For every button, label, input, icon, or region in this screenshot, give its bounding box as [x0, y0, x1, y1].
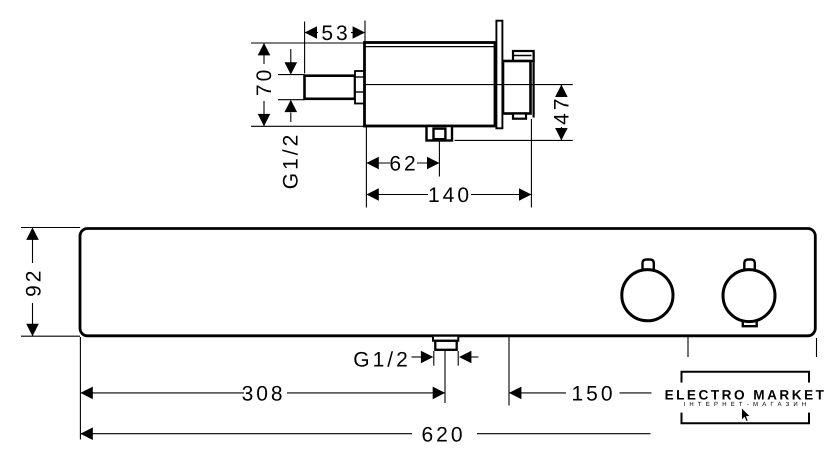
knob left circle: [622, 270, 673, 321]
G1/2 leader arrow left: [470, 356, 478, 358]
spout flange: [355, 71, 365, 104]
nut centerline: [438, 141, 440, 177]
dimension 70 extension line top: [251, 42, 366, 44]
knob main block (top view): [503, 61, 531, 114]
dimension 620 line: [80, 433, 412, 435]
logo white background: [652, 357, 833, 441]
dimension 47 line: [560, 85, 562, 96]
centerline: [365, 84, 573, 86]
knob right circle: [723, 270, 775, 322]
dimension 140 arrow right: [519, 188, 531, 201]
knob bottom tab (top view): [513, 114, 526, 119]
dimension 150 extension right: [687, 337, 689, 358]
G1/2 leader arrow up: [290, 113, 292, 123]
dimension 140 arrow left: [366, 188, 378, 201]
body: [365, 43, 496, 127]
svg-text:620: 620: [421, 423, 465, 446]
nut inner (top view): [434, 129, 446, 140]
dimension 92 line: [32, 228, 34, 264]
dimension 53 arrow right: [353, 26, 365, 39]
G1/2 fitting extension left: [433, 351, 435, 366]
knob lip (top view): [513, 51, 534, 61]
svg-text:150: 150: [571, 382, 615, 405]
dimension 70 extension line bottom: [251, 125, 364, 127]
dimension 620 extension right: [816, 338, 818, 359]
dimension 70 line: [263, 43, 265, 64]
G1/2 label top view: [280, 132, 303, 190]
dimension 70 arrow up: [258, 43, 271, 55]
dimension 92 arrow down: [26, 324, 39, 336]
G1/2 leader arrow down: [290, 49, 292, 63]
knob right outer edge: [532, 52, 534, 118]
svg-text:92: 92: [23, 268, 46, 297]
fitting centerline: [444, 351, 446, 403]
logo frame top bracket: [682, 372, 810, 383]
knob right bottom tab: [743, 319, 757, 326]
dimension 140 line: [366, 194, 428, 196]
knob right top tab: [744, 260, 755, 274]
knob left top tab: [643, 260, 654, 274]
dimension 620 arrow left: [80, 427, 92, 440]
G1/2 leader extension top: [278, 74, 305, 76]
dimension 47 arrow down: [555, 128, 568, 140]
svg-text:70: 70: [253, 67, 276, 96]
dimension 140 extension right: [530, 119, 532, 208]
dimension 70 text: [253, 67, 276, 96]
svg-text:ІНТЕРНЕТ-МАГАЗИН: ІНТЕРНЕТ-МАГАЗИН: [684, 401, 811, 408]
svg-text:140: 140: [428, 184, 472, 207]
dimension 308 arrow left: [80, 387, 92, 400]
G1/2 leader arrow right: [412, 356, 423, 358]
nut outer (top view): [427, 126, 453, 141]
dimension 47 extension bottom: [455, 139, 573, 141]
svg-text:47: 47: [550, 96, 573, 125]
tablet body: [80, 229, 815, 336]
dimension 62 extension left: [365, 127, 367, 208]
dimension 150 extension left: [508, 336, 510, 406]
dimension 62 line: [366, 162, 390, 164]
svg-text:ELECTRO MARKET: ELECTRO MARKET: [665, 387, 827, 402]
dimension 92 text: [23, 268, 46, 297]
dimension 150 arrow left: [509, 387, 521, 400]
dimension 70 arrow down: [258, 114, 271, 126]
dimension 308/620 extension left: [79, 337, 81, 440]
dimension 150 line: [509, 392, 566, 394]
dimension 308 line: [80, 392, 244, 394]
dimension 92 extension top: [21, 227, 80, 229]
dimension 47 arrow up: [555, 85, 568, 97]
dimension 92 extension bottom: [21, 335, 80, 337]
svg-text:G1/2: G1/2: [280, 132, 303, 190]
svg-text:62: 62: [389, 153, 418, 176]
svg-text:53: 53: [321, 22, 350, 45]
dimension 53 arrow left: [305, 26, 317, 39]
G1/2 fitting collar (bottom view): [433, 337, 458, 341]
dimension 62 arrow left: [366, 157, 378, 170]
G1/2 leader extension bottom: [278, 99, 305, 101]
G1/2 fitting extension right: [457, 351, 459, 366]
wall plate: [496, 21, 502, 129]
dimension 53 extension line left: [304, 22, 306, 74]
dimension 62 arrow right: [427, 157, 439, 170]
spout: [305, 76, 356, 99]
cursor arrow: [742, 408, 751, 422]
svg-text:308: 308: [242, 382, 286, 405]
logo frame bottom bracket: [682, 413, 810, 424]
dimension 92 arrow up: [26, 228, 39, 240]
dimension 47 text: [550, 96, 573, 125]
body inner top line: [365, 46, 496, 48]
svg-text:G1/2: G1/2: [353, 348, 411, 371]
dimension 53 line: [305, 32, 318, 34]
dimension 308 arrow right: [433, 387, 445, 400]
dimension 53 extension line right: [364, 21, 366, 43]
G1/2 fitting block (bottom view): [435, 341, 456, 350]
